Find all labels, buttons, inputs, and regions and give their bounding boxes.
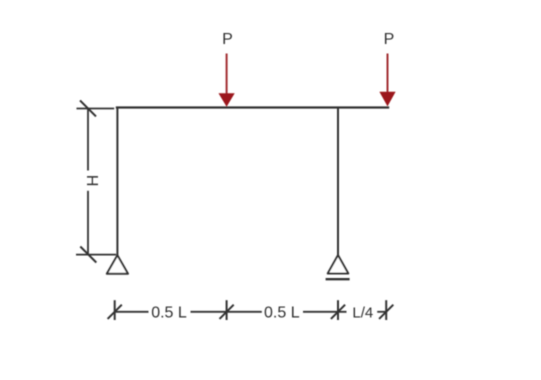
svg-text:P: P: [222, 31, 233, 48]
load P2 arrow shaft: [387, 54, 389, 94]
load P1 arrow shaft: [226, 54, 228, 96]
pin support (left): [107, 255, 128, 273]
H dimension: vertical line lower part: [87, 191, 89, 255]
right column: [337, 108, 339, 256]
roller support (right): [328, 255, 349, 273]
dim tick 1 extension: [114, 300, 116, 320]
dim tick 1 slash: [108, 305, 122, 319]
roller base line: [326, 278, 350, 280]
H dimension: top extension line: [77, 108, 115, 110]
H dimension: bottom tick: [80, 247, 96, 263]
H dimension: vertical line upper part: [87, 109, 89, 171]
H dimension: bottom extension line: [76, 254, 116, 256]
bottom dimension line segment 3: [303, 311, 347, 313]
H dimension: top tick: [80, 100, 96, 116]
dim tick 2 extension: [226, 300, 228, 320]
bottom dimension line segment 2: [191, 311, 262, 313]
load P1 arrowhead: [219, 93, 235, 107]
bottom dimension line segment 4: [377, 311, 386, 313]
svg-text:L/4: L/4: [352, 304, 373, 321]
beam (top horizontal member): [116, 106, 389, 108]
svg-text:P: P: [384, 31, 395, 48]
load P2 arrowhead: [379, 92, 395, 107]
bottom dimension line segment 1: [115, 311, 149, 313]
dim tick 2 slash: [220, 305, 234, 319]
svg-text:H: H: [85, 175, 102, 187]
dim tick 4 slash: [379, 305, 393, 319]
svg-text:0.5 L: 0.5 L: [264, 304, 300, 321]
dim tick 3 slash: [331, 305, 345, 319]
svg-text:0.5 L: 0.5 L: [151, 304, 187, 321]
left column: [116, 108, 118, 256]
dim tick 3 extension: [337, 300, 339, 320]
dim tick 4 extension: [385, 300, 387, 320]
